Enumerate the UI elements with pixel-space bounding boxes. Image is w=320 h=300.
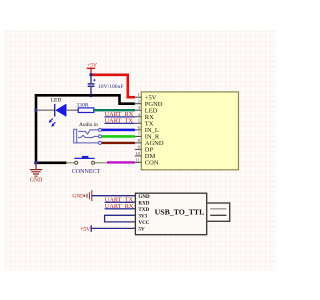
module U2 pin names bbox=[138, 194, 150, 233]
svg-text:RXD: RXD bbox=[138, 200, 149, 206]
switch S1 CONNECT bbox=[66, 156, 107, 175]
ground GND (power ground) bbox=[30, 163, 43, 184]
node junction GND corner bbox=[34, 161, 38, 165]
svg-text:+5V: +5V bbox=[87, 62, 97, 68]
svg-text:CONNECT: CONNECT bbox=[72, 169, 101, 175]
wire 3V3-VCC loop bbox=[105, 215, 136, 222]
connector J1 audio jack bbox=[74, 122, 102, 144]
svg-text:GND: GND bbox=[30, 178, 43, 184]
node junction cap/black bus bbox=[89, 94, 93, 98]
svg-text:5V: 5V bbox=[138, 226, 145, 232]
wire power bus (black thick) bbox=[36, 95, 135, 163]
svg-text:11: 11 bbox=[136, 157, 140, 162]
node junction LED branch bbox=[34, 109, 37, 112]
module U2 pin stubs bbox=[132, 196, 136, 229]
svg-text:VCC: VCC bbox=[138, 220, 149, 226]
wire LED to resistor (gray) bbox=[66, 109, 78, 111]
net label UART_RX (USB side) bbox=[105, 203, 136, 210]
IC U1 block bbox=[141, 92, 238, 170]
svg-text:GND: GND bbox=[72, 193, 84, 199]
capacitor C1 10V/100uF bbox=[88, 75, 124, 96]
sheet background bbox=[5, 31, 276, 271]
svg-text:USB_TO_TTL: USB_TO_TTL bbox=[155, 207, 205, 216]
wire jack tip to IN_L (blue) bbox=[102, 129, 135, 132]
LED D1 bbox=[49, 98, 66, 127]
wire +5V to pin1 (red) bbox=[91, 75, 135, 97]
wire bottom bus to button (black thick) bbox=[36, 162, 67, 165]
resistor R1 330R bbox=[76, 103, 93, 113]
ground GND (USB section) bbox=[72, 190, 135, 201]
svg-text:1: 1 bbox=[138, 92, 140, 97]
svg-text:LED: LED bbox=[51, 98, 62, 104]
net label UART_TX (USB side) bbox=[105, 196, 136, 203]
net label UART_RX (IC side) bbox=[105, 111, 135, 118]
module U2 USB_TO_TTL block bbox=[135, 193, 206, 235]
svg-text:10V/100uF: 10V/100uF bbox=[98, 84, 124, 90]
wire to LED (gray) bbox=[37, 109, 54, 111]
power +5V (USB section) bbox=[80, 225, 135, 233]
IC U1 pin names bbox=[145, 95, 164, 167]
node junction at +5V/cap bbox=[89, 73, 92, 76]
wire button to CON pin (magenta) bbox=[107, 161, 135, 163]
svg-text:TXD: TXD bbox=[138, 207, 149, 213]
svg-text:+5V: +5V bbox=[80, 227, 91, 233]
wire jack sleeve to AGND (dark red) bbox=[102, 142, 135, 144]
svg-text:3V3: 3V3 bbox=[138, 213, 147, 219]
wire resistor to pin3 (teal) bbox=[94, 109, 135, 111]
IC U1 pin stubs 1-11 bbox=[135, 97, 142, 162]
svg-text:Audio in: Audio in bbox=[79, 122, 98, 128]
connector USB plug bbox=[207, 203, 230, 221]
svg-text:2: 2 bbox=[138, 99, 140, 104]
wire jack ring to IN_R (green) bbox=[102, 135, 135, 138]
net label UART_TX (IC side) bbox=[105, 117, 135, 124]
svg-text:GND: GND bbox=[138, 194, 150, 200]
svg-text:CON: CON bbox=[145, 160, 159, 167]
IC U1 pin numbers bbox=[135, 92, 140, 162]
power +5V (top) bbox=[87, 62, 97, 74]
